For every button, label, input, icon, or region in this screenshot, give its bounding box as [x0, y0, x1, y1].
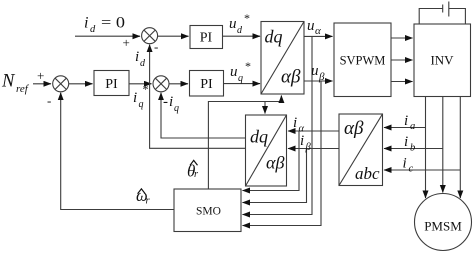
block PI2 q-axis current regulator [190, 71, 224, 97]
summing junction S1 (d-current loop) [142, 28, 158, 44]
block PI speed regulator [94, 71, 129, 96]
svg-text:= 0: = 0 [101, 15, 125, 32]
block SVPWM [334, 23, 391, 97]
svg-text:SMO: SMO [196, 206, 221, 218]
svg-text:dq: dq [250, 127, 268, 147]
label u_q* [230, 59, 251, 84]
svg-text:N: N [1, 72, 16, 92]
svg-text:ref: ref [16, 83, 30, 95]
svg-text:i: i [300, 133, 304, 149]
wire: SVPWM to INV gate signal 2 [391, 59, 413, 61]
label i_d* = 0 [84, 15, 125, 36]
svg-text:-: - [154, 39, 158, 54]
wire: N_ref input [33, 83, 51, 85]
wire: i_a measurement to alphabeta/abc [384, 127, 426, 129]
wire: S1 to PI_d [158, 35, 189, 37]
wire: SVPWM to INV gate signal 3 [391, 81, 413, 83]
label i_c [403, 156, 414, 175]
wire: inverter phase b to PMSM [442, 97, 444, 193]
svg-text:α: α [315, 25, 321, 37]
svg-text:β: β [305, 142, 312, 153]
wire: u_beta to SVPWM [304, 80, 333, 82]
svg-text:PMSM: PMSM [424, 219, 462, 234]
label u_beta [311, 63, 325, 83]
svg-text:i: i [404, 113, 408, 129]
svg-text:INV: INV [430, 53, 454, 68]
svg-text:PI: PI [105, 77, 118, 92]
wire: PI_speed output i_q* to S3 [129, 83, 152, 85]
block dq->alphabeta voltage transform U1 [261, 22, 304, 95]
svg-text:-: - [163, 94, 168, 110]
block SMO sliding mode observer [174, 189, 241, 232]
wire: S3 to PI_q [169, 83, 188, 85]
label -i_q at S3 [163, 94, 179, 114]
battery plate short (negative) [442, 5, 444, 13]
svg-text:q: q [238, 73, 243, 84]
svg-text:i: i [293, 115, 297, 131]
svg-text:q: q [174, 103, 179, 114]
svg-text:PI: PI [200, 77, 213, 92]
svg-text:abc: abc [355, 164, 380, 183]
svg-text:*: * [245, 59, 251, 73]
svg-text:b: b [410, 143, 415, 154]
wire: i_alpha tap to SMO [243, 131, 300, 191]
wire: theta_r from SMO to voltage dq block [208, 96, 281, 190]
wire: i_c measurement to alphabeta/abc [384, 169, 460, 171]
wire: omega_r feedback from SMO to S2 [61, 93, 174, 210]
wire: S2 to PI_speed [69, 83, 93, 85]
wire: i_d feedback to S1 [150, 45, 246, 149]
wire: u_alpha to SVPWM [304, 35, 333, 37]
battery right wire [449, 9, 466, 25]
wire: u_beta tap to SMO [243, 81, 322, 226]
label theta_r estimated [187, 160, 199, 180]
block alphabeta->dq current transform U2 [246, 115, 287, 186]
wire: PI_q output u_q* to dq/ab block [224, 83, 261, 85]
wire: SVPWM to INV gate signal 1 [391, 37, 413, 39]
label i_b [404, 134, 415, 154]
svg-text:i: i [169, 94, 173, 110]
svg-text:SVPWM: SVPWM [340, 54, 386, 68]
label u_alpha [307, 18, 321, 37]
svg-text:i: i [135, 49, 139, 65]
svg-text:d: d [90, 24, 96, 35]
wire: i_alpha to dq block [288, 130, 339, 132]
label omega_r estimated [136, 186, 151, 207]
label i_alpha [293, 115, 305, 135]
label u_d* [229, 11, 250, 36]
svg-text:a: a [410, 121, 415, 132]
wire: theta_r branch to current dq block [264, 102, 266, 114]
block PI1 d-axis current regulator [190, 26, 223, 49]
label i_a [404, 113, 415, 132]
wire: inverter phase c to PMSM [459, 97, 461, 199]
wire: i_beta tap to SMO [243, 149, 307, 203]
wire: i_d*=0 reference input [75, 35, 140, 37]
summing junction S2 (speed loop) [53, 76, 69, 92]
label i_d feedback [135, 49, 146, 69]
block INV inverter [414, 24, 471, 97]
svg-text:i: i [133, 90, 137, 106]
svg-text:αβ: αβ [281, 67, 301, 88]
svg-text:αβ: αβ [344, 118, 364, 139]
wire: PI_d output u_d* to dq/ab block [223, 35, 261, 37]
svg-text:*: * [244, 11, 250, 25]
svg-text:i: i [404, 134, 408, 150]
wire: i_q feedback to S3 [161, 93, 246, 138]
motor PMSM [415, 194, 472, 251]
label N_ref [1, 72, 30, 96]
svg-text:PI: PI [200, 31, 213, 46]
wire: i_beta to dq block [288, 148, 339, 150]
wire: i_b measurement to alphabeta/abc [384, 148, 443, 150]
svg-text:i: i [403, 156, 407, 172]
battery DC link: left wire [419, 9, 443, 25]
label i_q* [133, 82, 149, 110]
svg-text:c: c [409, 164, 414, 175]
svg-text:i: i [84, 15, 88, 32]
summing junction S3 (q-current loop) [153, 76, 169, 92]
wire: inverter phase a to PMSM [425, 97, 427, 199]
label i_beta [300, 133, 312, 153]
svg-text:αβ: αβ [266, 153, 284, 173]
svg-text:*: * [143, 82, 149, 96]
block alphabeta->abc current transform U3 [339, 114, 383, 186]
svg-text:β: β [318, 71, 325, 83]
svg-text:u: u [307, 18, 315, 34]
svg-text:+: + [37, 68, 44, 83]
svg-text:dq: dq [265, 27, 283, 47]
battery plate long (positive) [448, 2, 450, 17]
svg-text:u: u [229, 16, 237, 32]
svg-text:-: - [47, 93, 51, 108]
svg-text:u: u [311, 63, 319, 79]
svg-text:u: u [230, 64, 238, 80]
wire: u_alpha tap to SMO [243, 36, 313, 214]
svg-text:+: + [123, 35, 130, 50]
svg-text:q: q [139, 99, 144, 110]
